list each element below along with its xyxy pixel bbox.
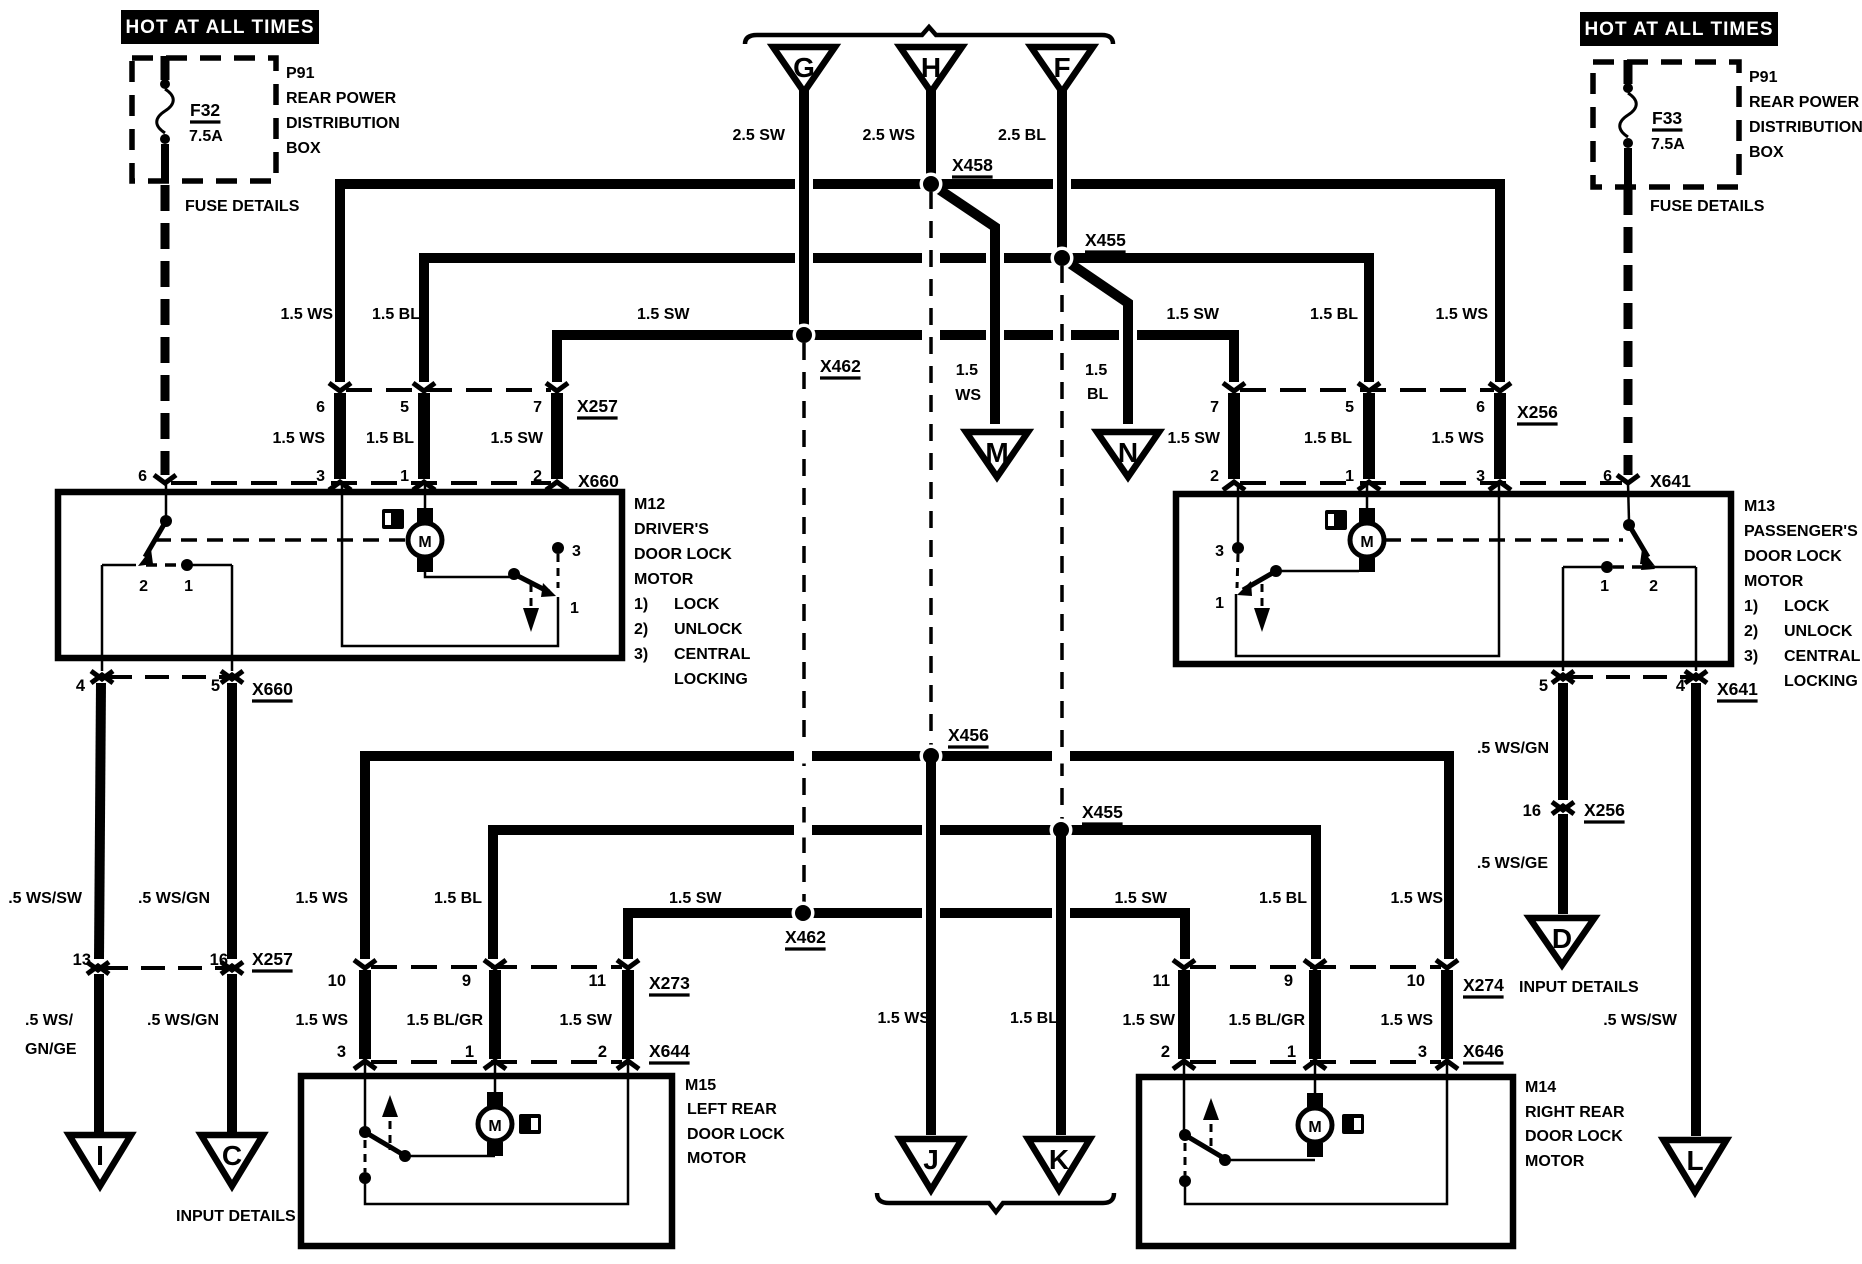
svg-text:M: M (488, 1118, 501, 1135)
svg-text:1: 1 (1215, 595, 1224, 612)
svg-text:BL: BL (1087, 386, 1109, 403)
svg-text:2.5 WS: 2.5 WS (863, 127, 916, 144)
svg-text:2: 2 (1649, 578, 1658, 595)
svg-text:F33: F33 (1652, 108, 1682, 128)
svg-text:CENTRAL: CENTRAL (1784, 648, 1861, 665)
svg-text:13: 13 (73, 951, 91, 969)
svg-text:C: C (222, 1140, 242, 1171)
svg-text:REAR POWER: REAR POWER (286, 90, 397, 107)
svg-text:1.5 BL: 1.5 BL (372, 306, 420, 323)
svg-text:X273: X273 (649, 973, 690, 993)
svg-text:1): 1) (1744, 598, 1758, 615)
svg-text:3: 3 (1418, 1043, 1427, 1061)
svg-text:3: 3 (316, 468, 325, 485)
svg-text:L: L (1686, 1145, 1703, 1176)
svg-text:2): 2) (1744, 623, 1758, 640)
svg-text:DISTRIBUTION: DISTRIBUTION (1749, 119, 1862, 136)
svg-text:6: 6 (1476, 399, 1485, 416)
svg-text:G: G (793, 52, 815, 83)
svg-text:11: 11 (589, 972, 606, 990)
svg-text:1.5 SW: 1.5 SW (637, 306, 690, 323)
svg-text:1.5 BL: 1.5 BL (1259, 890, 1307, 907)
svg-text:.5 WS/SW: .5 WS/SW (8, 890, 83, 907)
svg-text:2.5 BL: 2.5 BL (998, 127, 1046, 144)
svg-text:1.5 BL: 1.5 BL (434, 890, 482, 907)
svg-text:1.5 BL: 1.5 BL (1310, 306, 1358, 323)
svg-text:1.5 BL/GR: 1.5 BL/GR (1229, 1012, 1306, 1029)
svg-text:M13: M13 (1744, 498, 1775, 515)
svg-text:X256: X256 (1517, 402, 1558, 422)
svg-text:LOCKING: LOCKING (1784, 673, 1858, 690)
svg-text:X641: X641 (1717, 679, 1758, 699)
svg-text:16: 16 (1523, 802, 1541, 820)
svg-text:.5 WS/GN: .5 WS/GN (138, 890, 210, 907)
svg-text:11: 11 (1153, 972, 1170, 990)
svg-text:7: 7 (1210, 399, 1219, 416)
svg-text:K: K (1049, 1144, 1069, 1175)
svg-text:1.5 WS: 1.5 WS (296, 890, 349, 907)
svg-text:REAR POWER: REAR POWER (1749, 94, 1860, 111)
svg-text:7.5A: 7.5A (1651, 136, 1685, 153)
svg-text:X458: X458 (952, 155, 993, 175)
svg-text:2: 2 (139, 578, 148, 595)
svg-text:J: J (923, 1144, 939, 1175)
svg-text:N: N (1118, 437, 1138, 468)
svg-text:4: 4 (76, 677, 86, 695)
svg-text:1.5 WS: 1.5 WS (1381, 1012, 1434, 1029)
svg-text:1: 1 (184, 578, 193, 595)
svg-text:1.5 BL/GR: 1.5 BL/GR (407, 1012, 484, 1029)
svg-text:1.5 SW: 1.5 SW (560, 1012, 613, 1029)
svg-text:1.5 WS: 1.5 WS (296, 1012, 349, 1029)
svg-text:3: 3 (572, 543, 581, 560)
svg-text:10: 10 (1407, 972, 1425, 990)
svg-text:6: 6 (316, 399, 325, 416)
svg-text:BOX: BOX (1749, 144, 1784, 161)
svg-text:2: 2 (1210, 468, 1219, 485)
svg-text:3): 3) (1744, 648, 1758, 665)
svg-text:X644: X644 (649, 1041, 690, 1061)
svg-text:M15: M15 (685, 1077, 716, 1094)
svg-text:.5 WS/SW: .5 WS/SW (1603, 1012, 1678, 1029)
svg-text:LOCK: LOCK (1784, 598, 1830, 615)
svg-text:.5 WS/GN: .5 WS/GN (1477, 740, 1549, 757)
svg-text:PASSENGER'S: PASSENGER'S (1744, 523, 1858, 540)
svg-text:1.5 WS: 1.5 WS (1432, 430, 1485, 447)
svg-text:X462: X462 (820, 356, 861, 376)
svg-text:1: 1 (400, 468, 409, 485)
svg-text:M: M (1308, 1119, 1321, 1136)
svg-text:DOOR LOCK: DOOR LOCK (1525, 1128, 1623, 1145)
svg-text:FUSE DETAILS: FUSE DETAILS (185, 198, 300, 215)
svg-text:X455: X455 (1085, 230, 1126, 250)
svg-text:GN/GE: GN/GE (25, 1041, 77, 1058)
svg-text:UNLOCK: UNLOCK (1784, 623, 1853, 640)
svg-text:9: 9 (1284, 972, 1293, 990)
svg-text:H: H (921, 52, 941, 83)
svg-text:X257: X257 (252, 949, 293, 969)
svg-text:X660: X660 (578, 471, 619, 491)
svg-text:6: 6 (138, 468, 147, 485)
svg-text:1.5: 1.5 (956, 362, 978, 379)
svg-text:1: 1 (1287, 1043, 1296, 1061)
svg-text:DISTRIBUTION: DISTRIBUTION (286, 115, 400, 132)
svg-text:M: M (1360, 534, 1373, 551)
svg-text:MOTOR: MOTOR (1744, 573, 1804, 590)
svg-text:1.5 WS: 1.5 WS (1436, 306, 1489, 323)
svg-text:1: 1 (570, 600, 579, 617)
svg-text:HOT AT ALL TIMES: HOT AT ALL TIMES (125, 17, 314, 38)
svg-text:F: F (1053, 52, 1070, 83)
svg-text:FUSE DETAILS: FUSE DETAILS (1650, 198, 1765, 215)
svg-text:1.5 WS: 1.5 WS (878, 1010, 931, 1027)
svg-text:INPUT DETAILS: INPUT DETAILS (1519, 979, 1639, 996)
svg-text:DRIVER'S: DRIVER'S (634, 521, 709, 538)
svg-text:4: 4 (1676, 677, 1686, 695)
svg-text:10: 10 (328, 972, 346, 990)
svg-text:1.5 WS: 1.5 WS (1391, 890, 1444, 907)
svg-text:X456: X456 (948, 725, 989, 745)
svg-text:LEFT REAR: LEFT REAR (687, 1101, 777, 1118)
svg-text:X660: X660 (252, 679, 293, 699)
svg-text:M14: M14 (1525, 1079, 1556, 1096)
svg-text:5: 5 (211, 677, 220, 695)
svg-text:1.5 WS: 1.5 WS (273, 430, 326, 447)
svg-text:1.5 WS: 1.5 WS (281, 306, 334, 323)
svg-text:1.5 SW: 1.5 SW (1167, 306, 1220, 323)
svg-text:MOTOR: MOTOR (1525, 1153, 1585, 1170)
svg-text:X257: X257 (577, 396, 618, 416)
svg-text:6: 6 (1603, 468, 1612, 485)
svg-text:BOX: BOX (286, 140, 321, 157)
svg-text:D: D (1552, 923, 1572, 954)
svg-text:RIGHT REAR: RIGHT REAR (1525, 1104, 1625, 1121)
svg-text:9: 9 (462, 972, 471, 990)
svg-text:16: 16 (210, 951, 228, 969)
svg-text:7.5A: 7.5A (189, 128, 223, 145)
svg-text:1.5 BL: 1.5 BL (366, 430, 414, 447)
svg-text:M12: M12 (634, 496, 665, 513)
svg-text:2: 2 (533, 468, 542, 485)
svg-text:M: M (418, 534, 431, 551)
svg-text:3: 3 (1215, 543, 1224, 560)
svg-text:X641: X641 (1650, 471, 1691, 491)
svg-text:3: 3 (1476, 468, 1485, 485)
svg-text:DOOR LOCK: DOOR LOCK (687, 1126, 785, 1143)
svg-text:X646: X646 (1463, 1041, 1504, 1061)
svg-text:.5 WS/GE: .5 WS/GE (1477, 855, 1548, 872)
svg-text:2: 2 (1161, 1043, 1170, 1061)
svg-text:UNLOCK: UNLOCK (674, 621, 743, 638)
svg-text:HOT AT ALL TIMES: HOT AT ALL TIMES (1584, 19, 1773, 40)
svg-text:1.5 SW: 1.5 SW (491, 430, 544, 447)
svg-text:1.5 SW: 1.5 SW (1115, 890, 1168, 907)
svg-text:I: I (96, 1140, 104, 1171)
svg-text:2): 2) (634, 621, 648, 638)
svg-text:DOOR LOCK: DOOR LOCK (1744, 548, 1842, 565)
svg-text:1.5 SW: 1.5 SW (1168, 430, 1221, 447)
svg-text:CENTRAL: CENTRAL (674, 646, 751, 663)
svg-text:2: 2 (598, 1043, 607, 1061)
svg-text:X455: X455 (1082, 802, 1123, 822)
svg-text:X462: X462 (785, 927, 826, 947)
svg-text:P91: P91 (1749, 69, 1778, 86)
svg-text:LOCK: LOCK (674, 596, 720, 613)
svg-text:WS: WS (955, 387, 981, 404)
svg-text:1.5 SW: 1.5 SW (1123, 1012, 1176, 1029)
svg-text:7: 7 (533, 399, 542, 416)
svg-text:3): 3) (634, 646, 648, 663)
svg-text:5: 5 (1539, 677, 1548, 695)
svg-text:MOTOR: MOTOR (634, 571, 694, 588)
svg-text:1: 1 (1345, 468, 1354, 485)
svg-text:5: 5 (1345, 399, 1354, 416)
svg-text:.5 WS/GN: .5 WS/GN (147, 1012, 219, 1029)
svg-text:1.5: 1.5 (1085, 362, 1107, 379)
svg-text:1.5 BL: 1.5 BL (1304, 430, 1352, 447)
svg-text:.5 WS/: .5 WS/ (25, 1012, 74, 1029)
svg-text:INPUT DETAILS: INPUT DETAILS (176, 1208, 296, 1225)
svg-text:3: 3 (337, 1043, 346, 1061)
svg-text:1): 1) (634, 596, 648, 613)
svg-text:LOCKING: LOCKING (674, 671, 748, 688)
svg-text:1: 1 (465, 1043, 474, 1061)
svg-text:1.5 BL: 1.5 BL (1010, 1010, 1058, 1027)
svg-text:1: 1 (1600, 578, 1609, 595)
svg-text:M: M (985, 437, 1008, 468)
svg-text:2.5 SW: 2.5 SW (733, 127, 786, 144)
svg-text:X274: X274 (1463, 975, 1504, 995)
svg-text:MOTOR: MOTOR (687, 1150, 747, 1167)
svg-text:X256: X256 (1584, 800, 1625, 820)
svg-text:DOOR LOCK: DOOR LOCK (634, 546, 732, 563)
svg-text:F32: F32 (190, 100, 220, 120)
svg-text:P91: P91 (286, 65, 315, 82)
svg-text:1.5 SW: 1.5 SW (669, 890, 722, 907)
svg-text:5: 5 (400, 399, 409, 416)
